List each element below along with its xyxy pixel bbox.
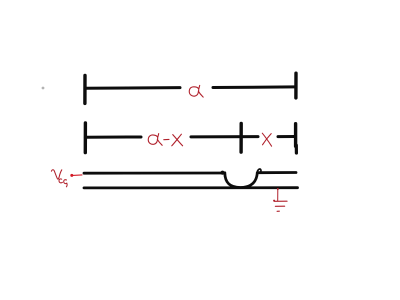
- stray gray dot: [42, 87, 45, 90]
- node: Vcc arrow to wire: [70, 174, 82, 177]
- wire: top dimension line right segment: [213, 85, 295, 89]
- wire: jockey dip arc: [225, 173, 257, 188]
- node: second line right end cap: [294, 124, 297, 147]
- wire: top dimension line left segment: [85, 86, 180, 90]
- wire: bottom circuit top wire right: [258, 171, 296, 174]
- node: top line right end cap: [294, 73, 298, 98]
- wire: hook at right of arc: [257, 169, 261, 172]
- node: second line middle cap: [239, 123, 242, 152]
- label Vcc: [51, 170, 67, 187]
- wire: second dimension line left segment: [85, 136, 141, 139]
- label alpha minus x: [148, 134, 182, 146]
- label x (right span): [262, 133, 271, 146]
- ground: [273, 188, 287, 211]
- wire: bottom circuit top wire left: [84, 172, 224, 175]
- node: second line left end cap: [84, 123, 87, 153]
- wire: bottom circuit lower wire: [84, 186, 298, 189]
- label alpha (top line): [189, 85, 203, 97]
- wire: second dimension line middle segment: [191, 135, 258, 138]
- node: blob at left arc junction: [220, 171, 224, 175]
- wire: second dimension line right segment: [278, 135, 296, 138]
- node: top line left end cap: [83, 76, 86, 104]
